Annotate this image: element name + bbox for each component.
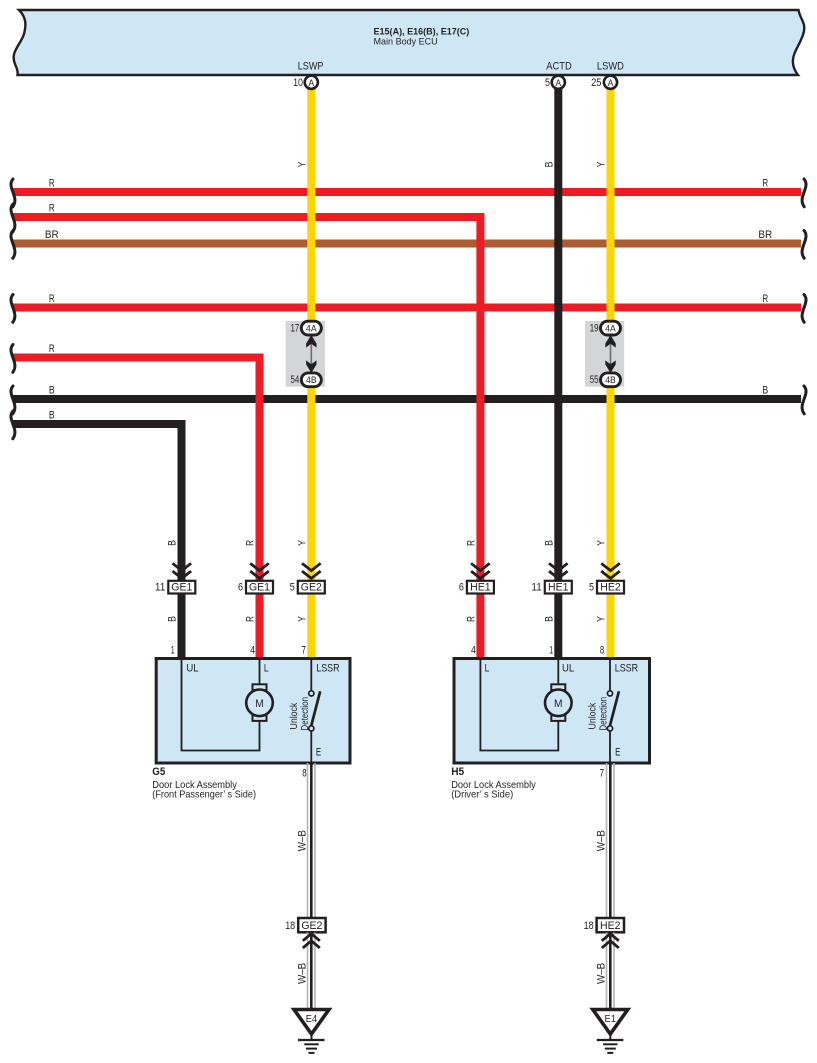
svg-text:M: M [554,698,563,710]
svg-text:B: B [762,385,768,397]
svg-text:4B: 4B [605,375,616,385]
svg-text:10: 10 [293,77,303,89]
wire W-B from H5 E to HE2 connector [607,763,615,918]
svg-text:L: L [485,663,490,675]
svg-text:UL: UL [186,663,198,675]
connector box HE1 pin 6 [459,581,494,594]
svg-text:B: B [544,540,556,546]
svg-text:E: E [316,746,321,758]
svg-text:Detection: Detection [599,697,610,731]
svg-text:17: 17 [291,323,300,335]
connector box HE2 pin 5 [589,581,624,594]
connector box GE1 pin 6 [238,581,273,594]
label H5 Door Lock Assembly [451,766,536,801]
svg-text:ACTD: ACTD [546,61,571,73]
svg-text:A: A [608,78,614,88]
ground E1 [593,1010,628,1053]
svg-text:GE1: GE1 [171,582,192,594]
connector box GE1 pin 11 [155,581,195,594]
svg-text:R: R [466,616,478,622]
pin 10 (A) LSWP [293,76,318,89]
svg-text:R: R [245,540,257,546]
wire B horizontal to G5 UL pin (turns down at x=181.5) [13,424,182,659]
motor M (G5) [246,684,273,721]
svg-text:UL: UL [562,663,574,675]
component box G5 Door Lock Assembly (Front Passenger's Side) [156,659,350,764]
chevron arrow down GE1#6 [250,563,269,578]
svg-text:E: E [615,746,620,758]
svg-text:R: R [49,343,55,355]
svg-text:LSSR: LSSR [316,663,340,675]
svg-text:GE2: GE2 [301,920,322,932]
wire Y vertical from LSWD (lower) [607,386,615,659]
squiggle left end wire R y192 [11,179,15,207]
svg-text:R: R [762,293,768,305]
ground E4 [294,1010,329,1053]
svg-text:B: B [49,410,55,422]
chevron arrow down HE1#11 [549,563,568,578]
svg-text:BR: BR [758,229,772,241]
svg-text:W–B: W–B [596,830,608,851]
svg-text:6: 6 [459,582,464,594]
svg-text:GE2: GE2 [301,582,322,594]
svg-text:Detection: Detection [300,697,311,731]
svg-text:8: 8 [302,767,306,779]
switch unlock detection (H5) [588,691,619,731]
squiggle right end wire B y399 [802,386,806,414]
label G5 Door Lock Assembly [152,766,256,801]
pin 5 (A) ACTD [545,76,565,89]
svg-text:18: 18 [285,920,295,932]
svg-text:19: 19 [590,323,599,335]
svg-text:(Driver’ s Side): (Driver’ s Side) [451,790,513,801]
svg-text:HE2: HE2 [600,920,621,932]
svg-text:R: R [466,540,478,546]
svg-text:L: L [264,663,269,675]
squiggle left end wire R y357.5 [11,345,15,373]
connector box HE1 pin 11 [531,581,571,594]
squiggle left end wire BR y243.5 [11,231,15,259]
chevron arrow down GE2#5 [302,563,321,578]
svg-text:R: R [49,178,55,190]
wire R horizontal to G5 L pin (turns down at x=259.5) [13,358,260,660]
wire inside G5: LSSR to switch [310,660,312,691]
svg-text:Main Body ECU: Main Body ECU [374,36,438,46]
chevron arrow up GE2#18 [303,934,320,948]
squiggle left end wire R y217 [11,204,15,232]
squiggle left end wire B y424 [11,411,15,439]
svg-text:BR: BR [45,229,59,241]
ECU box E15(A), E16(B), E17(C) Main Body ECU [14,10,805,75]
svg-text:5: 5 [545,77,550,89]
wire R horizontal full (y=307.5) [13,304,801,312]
svg-text:B: B [167,540,179,546]
svg-text:H5: H5 [451,766,464,778]
svg-text:7: 7 [302,644,307,656]
wire R horizontal to H5 L pin (turns down at x=480.4) [13,217,480,659]
wire Y vertical from LSWD (upper) [607,88,615,322]
svg-text:18: 18 [584,920,594,932]
svg-text:5: 5 [290,582,295,594]
svg-text:1: 1 [171,644,175,656]
svg-text:R: R [49,203,55,215]
chevron arrow up HE2#18 [602,934,619,948]
motor M (H5) [545,684,572,721]
connector box GE2 pin 18 [285,918,325,932]
svg-text:Y: Y [596,540,608,546]
pin 25 (A) LSWD [591,76,617,89]
svg-text:W–B: W–B [297,963,309,984]
squiggle right end wire R y307.5 [802,295,806,323]
wire Y vertical from LSWP (lower, below 4B connector) [307,386,315,659]
svg-text:E4: E4 [306,1014,318,1025]
svg-text:HE1: HE1 [548,582,569,594]
wire inside G5: L to motor top [259,660,261,685]
wire inside H5: switch to E pin [609,731,611,762]
svg-text:HE2: HE2 [600,582,621,594]
switch unlock detection (G5) [289,691,320,731]
svg-text:6: 6 [238,582,243,594]
wire B vertical from ACTD [554,88,562,659]
svg-text:8: 8 [600,644,604,656]
svg-text:W–B: W–B [297,830,309,851]
svg-text:7: 7 [600,767,605,779]
svg-text:Y: Y [596,162,608,168]
wire W-B from HE2 to ground E1 [607,933,615,1010]
svg-text:(Front Passenger’ s Side): (Front Passenger’ s Side) [152,790,256,801]
svg-text:4A: 4A [306,323,317,333]
svg-text:Unlock: Unlock [289,703,300,730]
connector box HE2 pin 18 [584,918,624,932]
svg-text:Unlock: Unlock [588,703,599,730]
svg-text:GE1: GE1 [249,582,270,594]
svg-text:A: A [556,78,562,88]
svg-text:Y: Y [297,616,309,622]
chevron arrow down HE1#6 [471,563,490,578]
wire inside G5: UL to motor bottom [182,660,260,751]
svg-text:W–B: W–B [596,963,608,984]
svg-text:1: 1 [549,644,553,656]
svg-text:B: B [167,616,179,622]
wire W-B from GE2 to ground E4 [308,933,316,1010]
connector 4A/4B pass-through (right, pins 19/55) [585,321,624,387]
svg-text:G5: G5 [152,766,165,778]
svg-text:Y: Y [596,616,608,622]
svg-text:LSWD: LSWD [597,61,624,73]
svg-text:25: 25 [591,77,601,89]
svg-text:Y: Y [297,162,309,168]
svg-text:4: 4 [250,644,255,656]
svg-text:R: R [49,293,55,305]
wire Y vertical from LSWP pin (upper) [307,88,315,322]
component box H5 Door Lock Assembly (Driver's Side) [454,659,650,764]
svg-text:E15(A), E16(B), E17(C): E15(A), E16(B), E17(C) [374,26,470,36]
svg-text:11: 11 [531,582,541,594]
wire inside H5: L to motor bottom [480,660,558,751]
squiggle left end wire B y399 [11,386,15,414]
svg-text:R: R [245,616,257,622]
connector box GE2 pin 5 [290,581,325,594]
connector 4A/4B pass-through (left, pins 17/54) [286,321,325,387]
svg-text:B: B [544,162,556,168]
svg-text:4A: 4A [605,323,616,333]
chevron arrow down HE2#5 [601,563,620,578]
svg-text:LSWP: LSWP [298,61,324,73]
svg-text:Y: Y [297,540,309,546]
svg-text:R: R [762,178,768,190]
svg-text:E1: E1 [605,1014,617,1025]
wire BR horizontal full (y=243.5) [13,240,801,248]
svg-text:4: 4 [471,644,476,656]
squiggle right end wire BR y243.5 [802,231,806,259]
wire W-B from G5 E to GE2 connector [308,763,316,918]
wire inside G5: switch to E pin [310,731,312,762]
wire inside H5: UL to motor top [557,660,559,685]
svg-text:5: 5 [589,582,594,594]
svg-text:11: 11 [155,582,165,594]
svg-text:M: M [255,698,264,710]
svg-text:B: B [49,385,55,397]
chevron arrow down GE1#11 [173,563,192,578]
svg-text:54: 54 [291,374,300,386]
squiggle left end wire R y307.5 [11,295,15,323]
wire inside H5: LSSR to switch [609,660,611,691]
svg-text:LSSR: LSSR [615,663,639,675]
svg-text:A: A [309,78,315,88]
svg-text:B: B [544,616,556,622]
svg-text:HE1: HE1 [470,582,491,594]
wire R horizontal full (y=192) [13,188,801,196]
squiggle right end wire R y192 [802,179,806,207]
wire B horizontal full (y=399) [13,395,801,403]
svg-text:55: 55 [590,374,599,386]
svg-text:4B: 4B [306,375,317,385]
